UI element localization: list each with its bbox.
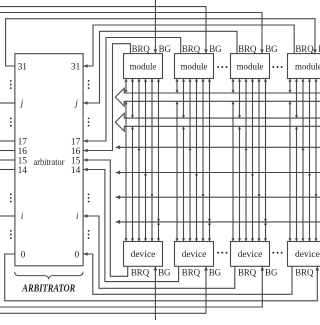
wire: bus column 4.2 (module 4 / device 4) — [296, 79, 298, 119]
wire: bus column 2.4 (module 2 / device 2) — [196, 79, 198, 242]
ellipsis dots right of arbiter y=84.5 — [88, 80, 90, 82]
underbrace for ARBITRATOR — [15, 272, 83, 279]
module 4 box — [288, 54, 320, 79]
svg-text:module: module — [181, 62, 208, 72]
svg-text:BG: BG — [209, 268, 222, 278]
wire: bus column 3.5 (module 3 / device 3) — [258, 79, 260, 242]
wire: bus column 4.5 (module 4 / device 4) — [315, 79, 317, 242]
svg-text:0: 0 — [75, 250, 80, 260]
device 2 box — [175, 242, 214, 267]
module 3 box — [231, 54, 270, 79]
wire: bus column 2.3 (module 2 / device 2) — [189, 79, 191, 242]
wire: grant line (cut at left) to device 3 BG — [0, 266, 262, 307]
wire: left stub port i — [0, 215, 15, 217]
svg-text:device: device — [131, 250, 156, 260]
wire: bus column 4.1 (module 4 / device 4) — [289, 79, 291, 94]
wire: grant line (cut at left) to module 2 BG — [0, 7, 206, 54]
wire: bus column 3.1 (module 3 / device 3) — [232, 79, 234, 94]
wire: module 1 BRQ request route to port 16 — [83, 44, 130, 151]
wire: bus column 1.2 (module 1 / device 1) — [132, 79, 134, 119]
wire: device 1 BRQ request route to port 15 — [83, 160, 128, 276]
svg-text:16: 16 — [18, 147, 28, 157]
wire: left stub port 17 — [0, 140, 15, 142]
module 2 box — [175, 54, 214, 79]
wire: module 2 BRQ request route to port 17 — [83, 38, 181, 142]
svg-text:BRQ: BRQ — [295, 268, 313, 278]
svg-text:BG: BG — [158, 268, 171, 278]
wire: bus column 2.5 (module 2 / device 2) — [202, 79, 204, 242]
ellipsis dots right of arbiter y=234.5 — [88, 230, 90, 232]
svg-text:15: 15 — [18, 156, 28, 166]
ellipsis between device 3 and 4 — [272, 252, 274, 254]
wire: bus column 2.1 (module 2 / device 2) — [176, 79, 178, 94]
svg-text:module: module — [295, 62, 320, 72]
wire: bus column 2.6 (module 2 / device 2) — [209, 79, 211, 242]
ellipsis dots right of arbiter y=122 — [88, 118, 90, 120]
svg-text:BRQ: BRQ — [295, 45, 313, 55]
wire: left stub port 15 — [0, 159, 15, 161]
wire: bus column 1.1 (module 1 / device 1) — [125, 79, 127, 94]
bus arrow B (hollow, lines 3-4) — [115, 113, 320, 131]
ellipsis dots left of arbiter y=84.5 — [10, 80, 12, 82]
svg-text:module: module — [237, 62, 264, 72]
ellipsis dots left of arbiter y=198 — [10, 194, 12, 196]
svg-text:BG: BG — [159, 45, 172, 55]
wire: port 31 grant route to module 4 BG — [6, 19, 315, 66]
svg-text:i: i — [21, 212, 24, 222]
wire: left stub port j — [0, 102, 15, 104]
device 1 box — [124, 242, 163, 267]
wire: bus column 4.3 (module 4 / device 4) — [302, 79, 304, 242]
wire: port 0 grant route to device 4 BG — [5, 254, 318, 301]
arbiter box U1 — [15, 54, 83, 266]
svg-text:i: i — [76, 212, 79, 222]
ellipsis between module 3 and 4 — [272, 66, 274, 68]
svg-text:ARBITRATOR: ARBITRATOR — [22, 283, 76, 295]
svg-text:device: device — [238, 250, 263, 260]
wire: bus column 3.6 (module 3 / device 3) — [265, 79, 267, 242]
svg-text:BG: BG — [209, 45, 222, 55]
svg-text:module: module — [130, 62, 157, 72]
wire: grant line (cut at left) to module 3 BG — [0, 13, 262, 54]
svg-text:device: device — [182, 250, 207, 260]
svg-text:device: device — [295, 250, 320, 260]
ellipsis dots right of arbiter y=198 — [88, 194, 90, 196]
svg-text:0: 0 — [21, 250, 26, 260]
svg-text:15: 15 — [71, 156, 81, 166]
bus line 8 — [116, 221, 320, 223]
svg-text:arbitrator: arbitrator — [34, 157, 65, 167]
wire: grant line (cut at left) to device 2 BG — [0, 266, 206, 313]
svg-text:31: 31 — [71, 62, 81, 72]
wire: bus column 1.4 (module 1 / device 1) — [145, 79, 147, 242]
wire: bus column 4.4 (module 4 / device 4) — [309, 79, 311, 242]
svg-text:17: 17 — [71, 137, 81, 147]
svg-text:j: j — [20, 99, 24, 109]
wire: device 2 BRQ request route to port 14 — [83, 170, 179, 282]
wire: bus column 1.5 (module 1 / device 1) — [151, 79, 153, 242]
wire: bus column 1.6 (module 1 / device 1) — [158, 79, 160, 242]
wire: device 4 BRQ request route to port 0 — [83, 254, 292, 294]
bus arrow A (hollow, lines 1-2) — [115, 88, 320, 106]
wire: module 4 BRQ request route to port 31 — [83, 25, 294, 66]
ellipsis between device 2 and 3 — [217, 252, 219, 254]
svg-text:BRQ: BRQ — [132, 45, 150, 55]
bus line 5 — [116, 146, 320, 148]
wire: bus column 1.3 (module 1 / device 1) — [138, 79, 140, 242]
svg-text:BG: BG — [265, 45, 278, 55]
wire: left stub port 16 — [0, 150, 15, 152]
svg-text:BRQ: BRQ — [238, 268, 256, 278]
wire: left stub port 14 — [0, 169, 15, 171]
bus line 7 — [116, 196, 320, 198]
wire: module 3 BRQ request route to port j — [83, 31, 237, 103]
svg-text:BG: BG — [265, 268, 278, 278]
device 3 box — [231, 242, 270, 267]
svg-text:BRQ: BRQ — [182, 45, 200, 55]
ellipsis between module 2 and 3 — [217, 66, 219, 68]
wire: device 1 BG line (cut at bottom) — [154, 266, 156, 320]
wire: bus column 3.2 (module 3 / device 3) — [239, 79, 241, 119]
wire: bus column 3.3 (module 3 / device 3) — [245, 79, 247, 242]
svg-text:BRQ: BRQ — [182, 268, 200, 278]
svg-text:BRQ: BRQ — [238, 45, 256, 55]
bus line 6 — [116, 172, 320, 174]
svg-text:BRQ: BRQ — [131, 268, 149, 278]
ellipsis dots left of arbiter y=122 — [10, 118, 12, 120]
svg-text:17: 17 — [18, 137, 28, 147]
svg-text:14: 14 — [18, 166, 28, 176]
svg-text:16: 16 — [71, 147, 81, 157]
device 4 box — [288, 242, 320, 267]
wire: bus column 3.4 (module 3 / device 3) — [252, 79, 254, 242]
module 1 box — [124, 54, 163, 79]
svg-text:j: j — [74, 99, 78, 109]
wire: bus column 2.2 (module 2 / device 2) — [183, 79, 185, 119]
svg-text:31: 31 — [18, 62, 28, 72]
wire: module 1 BG line (cut at top) — [154, 0, 156, 54]
svg-text:14: 14 — [71, 166, 81, 176]
ellipsis dots left of arbiter y=234.5 — [10, 230, 12, 232]
wire: device 3 BRQ request route to port i — [83, 216, 235, 288]
